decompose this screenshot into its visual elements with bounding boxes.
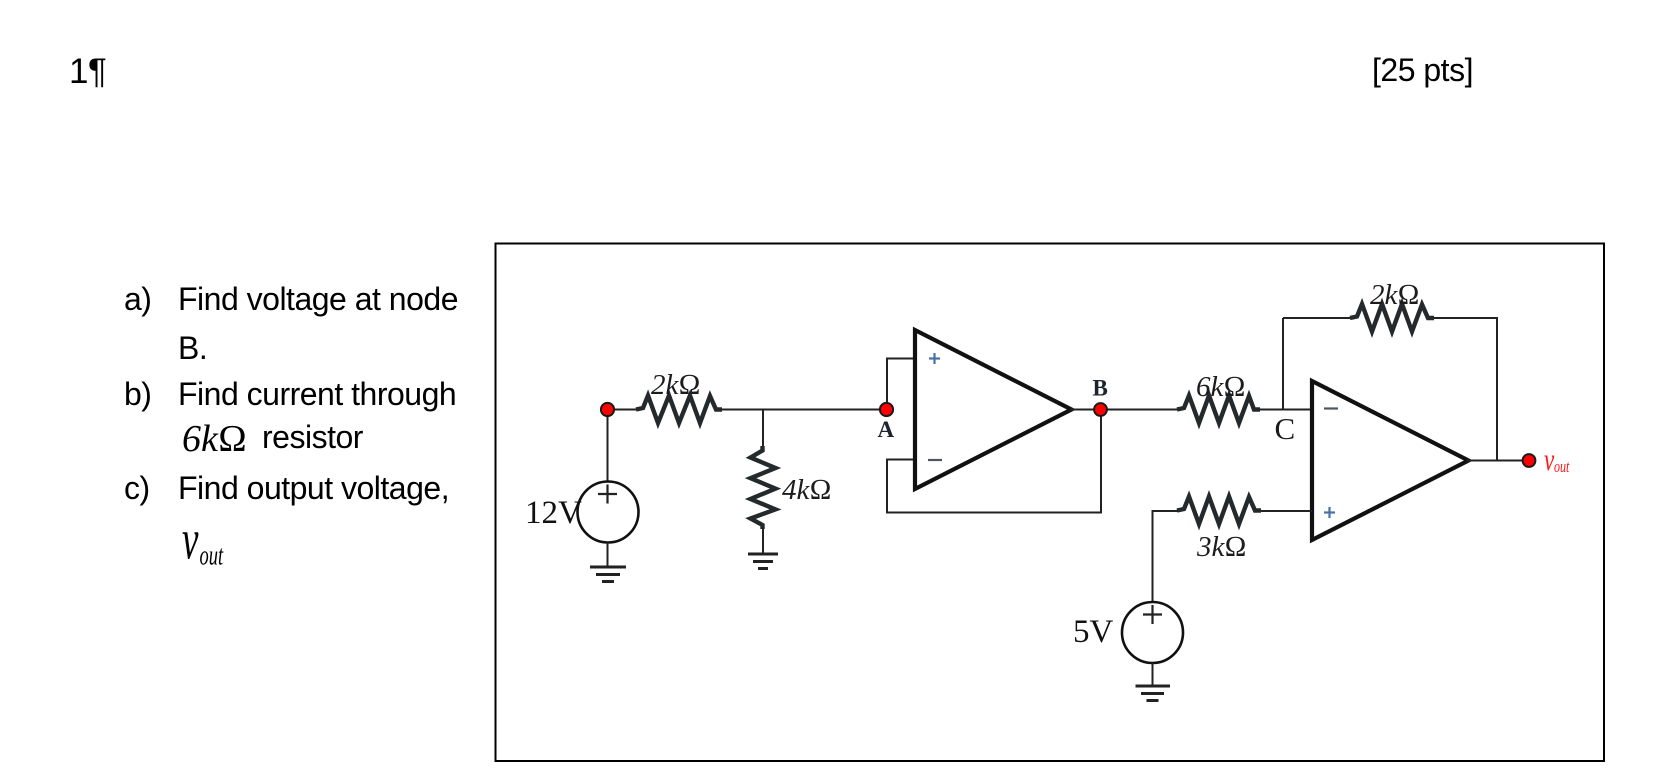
wire: feedback left vertical at node C [1282,318,1284,410]
wire: 4k resistor to ground [762,527,764,554]
minus input label of U1 [928,459,942,461]
svg-text:3kΩ: 3kΩ [1196,531,1247,563]
node A dot [880,403,893,416]
svg-text:2kΩ: 2kΩ [651,369,701,401]
plus sign of 5V source [1143,605,1162,624]
node 1 junction dot (12V / 2k) [601,403,614,416]
wire: op-amp U1 output to 6k resistor [1070,409,1180,411]
label node A [878,417,895,442]
wire: 6k resistor to op-amp U2 inverting input [1259,409,1312,411]
wire: 2k resistor to node A [721,409,886,411]
problem statement list item a [124,283,151,315]
label 2kOhm for R1 [651,369,701,401]
plus sign of 12V source [598,485,617,504]
svg-text:4kΩ: 4kΩ [782,474,832,506]
svg-text:v: v [182,509,199,572]
plus input label of U1 [929,353,940,364]
node vout dot [1523,454,1536,467]
wire: node1 down to 12V source [607,410,609,483]
op-amp U2 [1312,381,1469,540]
wire: feedback top left segment [1283,317,1352,319]
voltage source V2 5V [1122,602,1183,663]
plus input label of U2 [1324,507,1335,518]
wire: node1 to 2k resistor [608,409,639,411]
wire: feedback top right segment and right vertical to output [1433,318,1497,461]
wire: 3k resistor to op-amp U2 noninverting input [1260,510,1312,512]
ground under 4k resistor [748,554,778,569]
svg-text:2kΩ: 2kΩ [1370,279,1420,311]
label node B [1093,376,1108,401]
label 6kOhm for R3 [1196,371,1246,403]
wire: feedback from node B to op-amp inverting input [887,410,1101,513]
wire: 12V source to ground [607,543,609,568]
svg-text:5V: 5V [1073,614,1114,650]
wire: junction down to 4k resistor [762,410,764,449]
node B dot [1094,403,1107,416]
svg-text:6kΩ: 6kΩ [1196,371,1246,403]
resistor R5 3kOhm [1177,497,1261,525]
problem number 1 with pilcrow [69,54,106,89]
wire: 3k resistor left lead down to 5V source [1153,511,1179,602]
resistor R1 2kOhm [636,396,722,424]
op-amp U1 [915,330,1072,489]
svg-text:A: A [878,417,895,442]
label vout [1544,441,1570,476]
wire: op-amp U2 output to vout node [1467,460,1524,462]
label 5V [1073,614,1114,650]
label 12V [525,495,582,531]
problem statement list item c [124,472,150,504]
resistor R4 2kOhm feedback [1350,304,1434,332]
voltage source V1 12V [578,482,639,543]
wire: node A up to op-amp noninverting input [887,359,915,410]
label 3kOhm for R5 [1196,531,1247,563]
svg-text:out: out [1554,458,1570,476]
label 4kOhm for R2 [782,474,832,506]
ground under 5V source [1136,686,1171,701]
problem statement list item b [124,378,151,410]
minus input label of U2 [1324,407,1338,409]
label node C [1275,411,1296,446]
ground under 12V source [590,567,626,582]
svg-text:C: C [1275,411,1296,446]
svg-text:out: out [200,541,225,572]
wire: 5V source to ground [1152,663,1154,686]
resistor R3 6kOhm [1177,396,1260,424]
v_out symbol in problem text [182,509,224,572]
svg-text:12V: 12V [525,495,582,531]
resistor R2 4kOhm [751,446,776,529]
label 2kOhm for R4 [1370,279,1420,311]
points label [1372,54,1473,86]
svg-text:B: B [1093,376,1108,401]
